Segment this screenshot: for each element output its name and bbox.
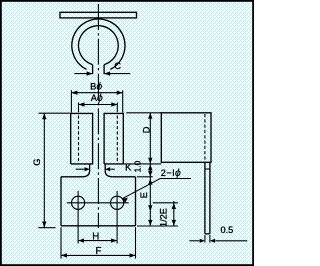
svg-text:H: H (92, 231, 99, 242)
svg-text:D: D (141, 126, 151, 133)
svg-text:2−Iϕ: 2−Iϕ (161, 167, 181, 179)
svg-text:1.0: 1.0 (132, 160, 142, 172)
svg-text:Bϕ: Bϕ (90, 80, 102, 92)
svg-text:C: C (114, 60, 121, 71)
svg-text:F: F (96, 246, 102, 257)
svg-text:G: G (32, 159, 42, 166)
svg-text:E: E (139, 192, 149, 198)
svg-text:Aϕ: Aϕ (91, 92, 103, 104)
svg-text:0.5: 0.5 (221, 225, 234, 235)
svg-text:1/2E: 1/2E (159, 208, 169, 227)
